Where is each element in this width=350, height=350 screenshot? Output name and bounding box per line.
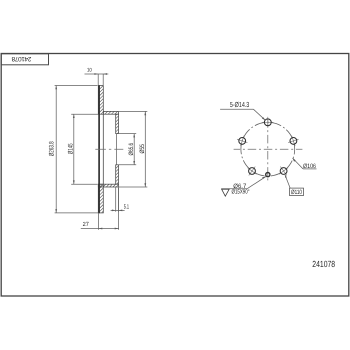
hole ticks upper-right	[286, 134, 300, 148]
bolt hole lower-left	[249, 168, 256, 175]
svg-text:Ø15X90°: Ø15X90°	[232, 189, 250, 196]
label 5-D14.3 with leader	[220, 109, 265, 120]
rotor inboard face edge	[102, 114, 104, 184]
hole ticks top	[262, 117, 273, 128]
svg-text:Ø145: Ø145	[68, 143, 75, 154]
hole ticks upper-left	[235, 134, 249, 148]
dimension: D55	[119, 111, 147, 187]
hat cylinder bottom strip (hatched)	[98, 184, 118, 187]
svg-text:Ø110: Ø110	[291, 189, 302, 196]
PCD dash-dot circle	[241, 122, 295, 176]
border frame	[1, 54, 349, 297]
hat face plate upper (hatched)	[116, 114, 119, 133]
5 bolt holes with center ticks	[235, 117, 300, 179]
svg-text:5-Ø14.3: 5-Ø14.3	[230, 100, 249, 109]
dimension: 10 (top)	[85, 73, 109, 85]
label D6.7 / D15X90 with countersink triangle	[221, 177, 266, 189]
dimension: 27 (bottom)	[81, 188, 119, 230]
label D106 with leader	[293, 158, 317, 169]
hole ticks lower-right	[276, 163, 291, 178]
rotor top section (hatched)	[98, 86, 103, 115]
vertical centerline	[267, 119, 269, 183]
hole ticks lower-left	[244, 163, 259, 178]
svg-text:241078: 241078	[11, 55, 31, 62]
bolt hole upper-right	[290, 138, 297, 145]
svg-text:Ø65.6: Ø65.6	[128, 143, 135, 156]
bolt hole top	[264, 119, 271, 126]
svg-text:Ø106: Ø106	[303, 163, 316, 170]
bore silhouette line	[115, 134, 117, 165]
centerline left view	[95, 148, 123, 150]
svg-text:27: 27	[83, 221, 90, 228]
svg-text:Ø55: Ø55	[139, 144, 146, 154]
dimension: D65.6	[119, 134, 136, 165]
small hole bottom (6.7)	[266, 173, 270, 177]
rotor bottom section (hatched)	[98, 184, 103, 213]
svg-text:10: 10	[87, 68, 92, 74]
countersink triangle symbol	[222, 189, 230, 196]
bolt hole upper-left	[239, 138, 246, 145]
dimension: D263.8 (far left)	[55, 86, 99, 213]
hat cylinder top strip (hatched)	[103, 111, 118, 114]
label D110 boxed with leader	[285, 175, 304, 196]
bolt hole lower-right	[280, 168, 287, 175]
hat face plate lower (hatched)	[116, 165, 119, 184]
horizontal centerline	[234, 148, 303, 150]
rotor outboard face thick edge	[98, 85, 100, 213]
dimension: D145	[71, 114, 98, 184]
svg-text:Ø263.8: Ø263.8	[49, 141, 56, 156]
title box top-left	[1, 54, 48, 65]
dimension: 5.1 (bottom right of section)	[111, 188, 125, 212]
svg-text:5.1: 5.1	[124, 204, 130, 211]
hole circles	[239, 119, 297, 177]
svg-text:241078: 241078	[312, 259, 335, 269]
